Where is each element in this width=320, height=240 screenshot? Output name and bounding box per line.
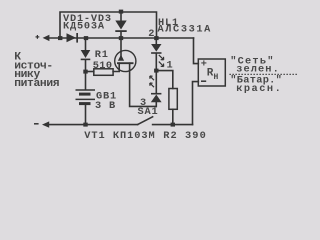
svg-text:3 В: 3 В (95, 100, 116, 112)
svg-text:SA1: SA1 (138, 106, 159, 118)
svg-text:красн.: красн. (236, 83, 282, 95)
svg-text:VT1 КП103М: VT1 КП103М (84, 130, 155, 142)
svg-text:2: 2 (148, 28, 155, 40)
svg-text:КД503А: КД503А (63, 21, 105, 33)
svg-text:R2 390: R2 390 (163, 130, 207, 142)
svg-text:1: 1 (167, 60, 174, 72)
svg-text:Н: Н (214, 73, 219, 82)
svg-text:510: 510 (93, 60, 113, 72)
svg-text:АЛС331А: АЛС331А (158, 23, 212, 35)
svg-text:питания: питания (14, 78, 60, 90)
